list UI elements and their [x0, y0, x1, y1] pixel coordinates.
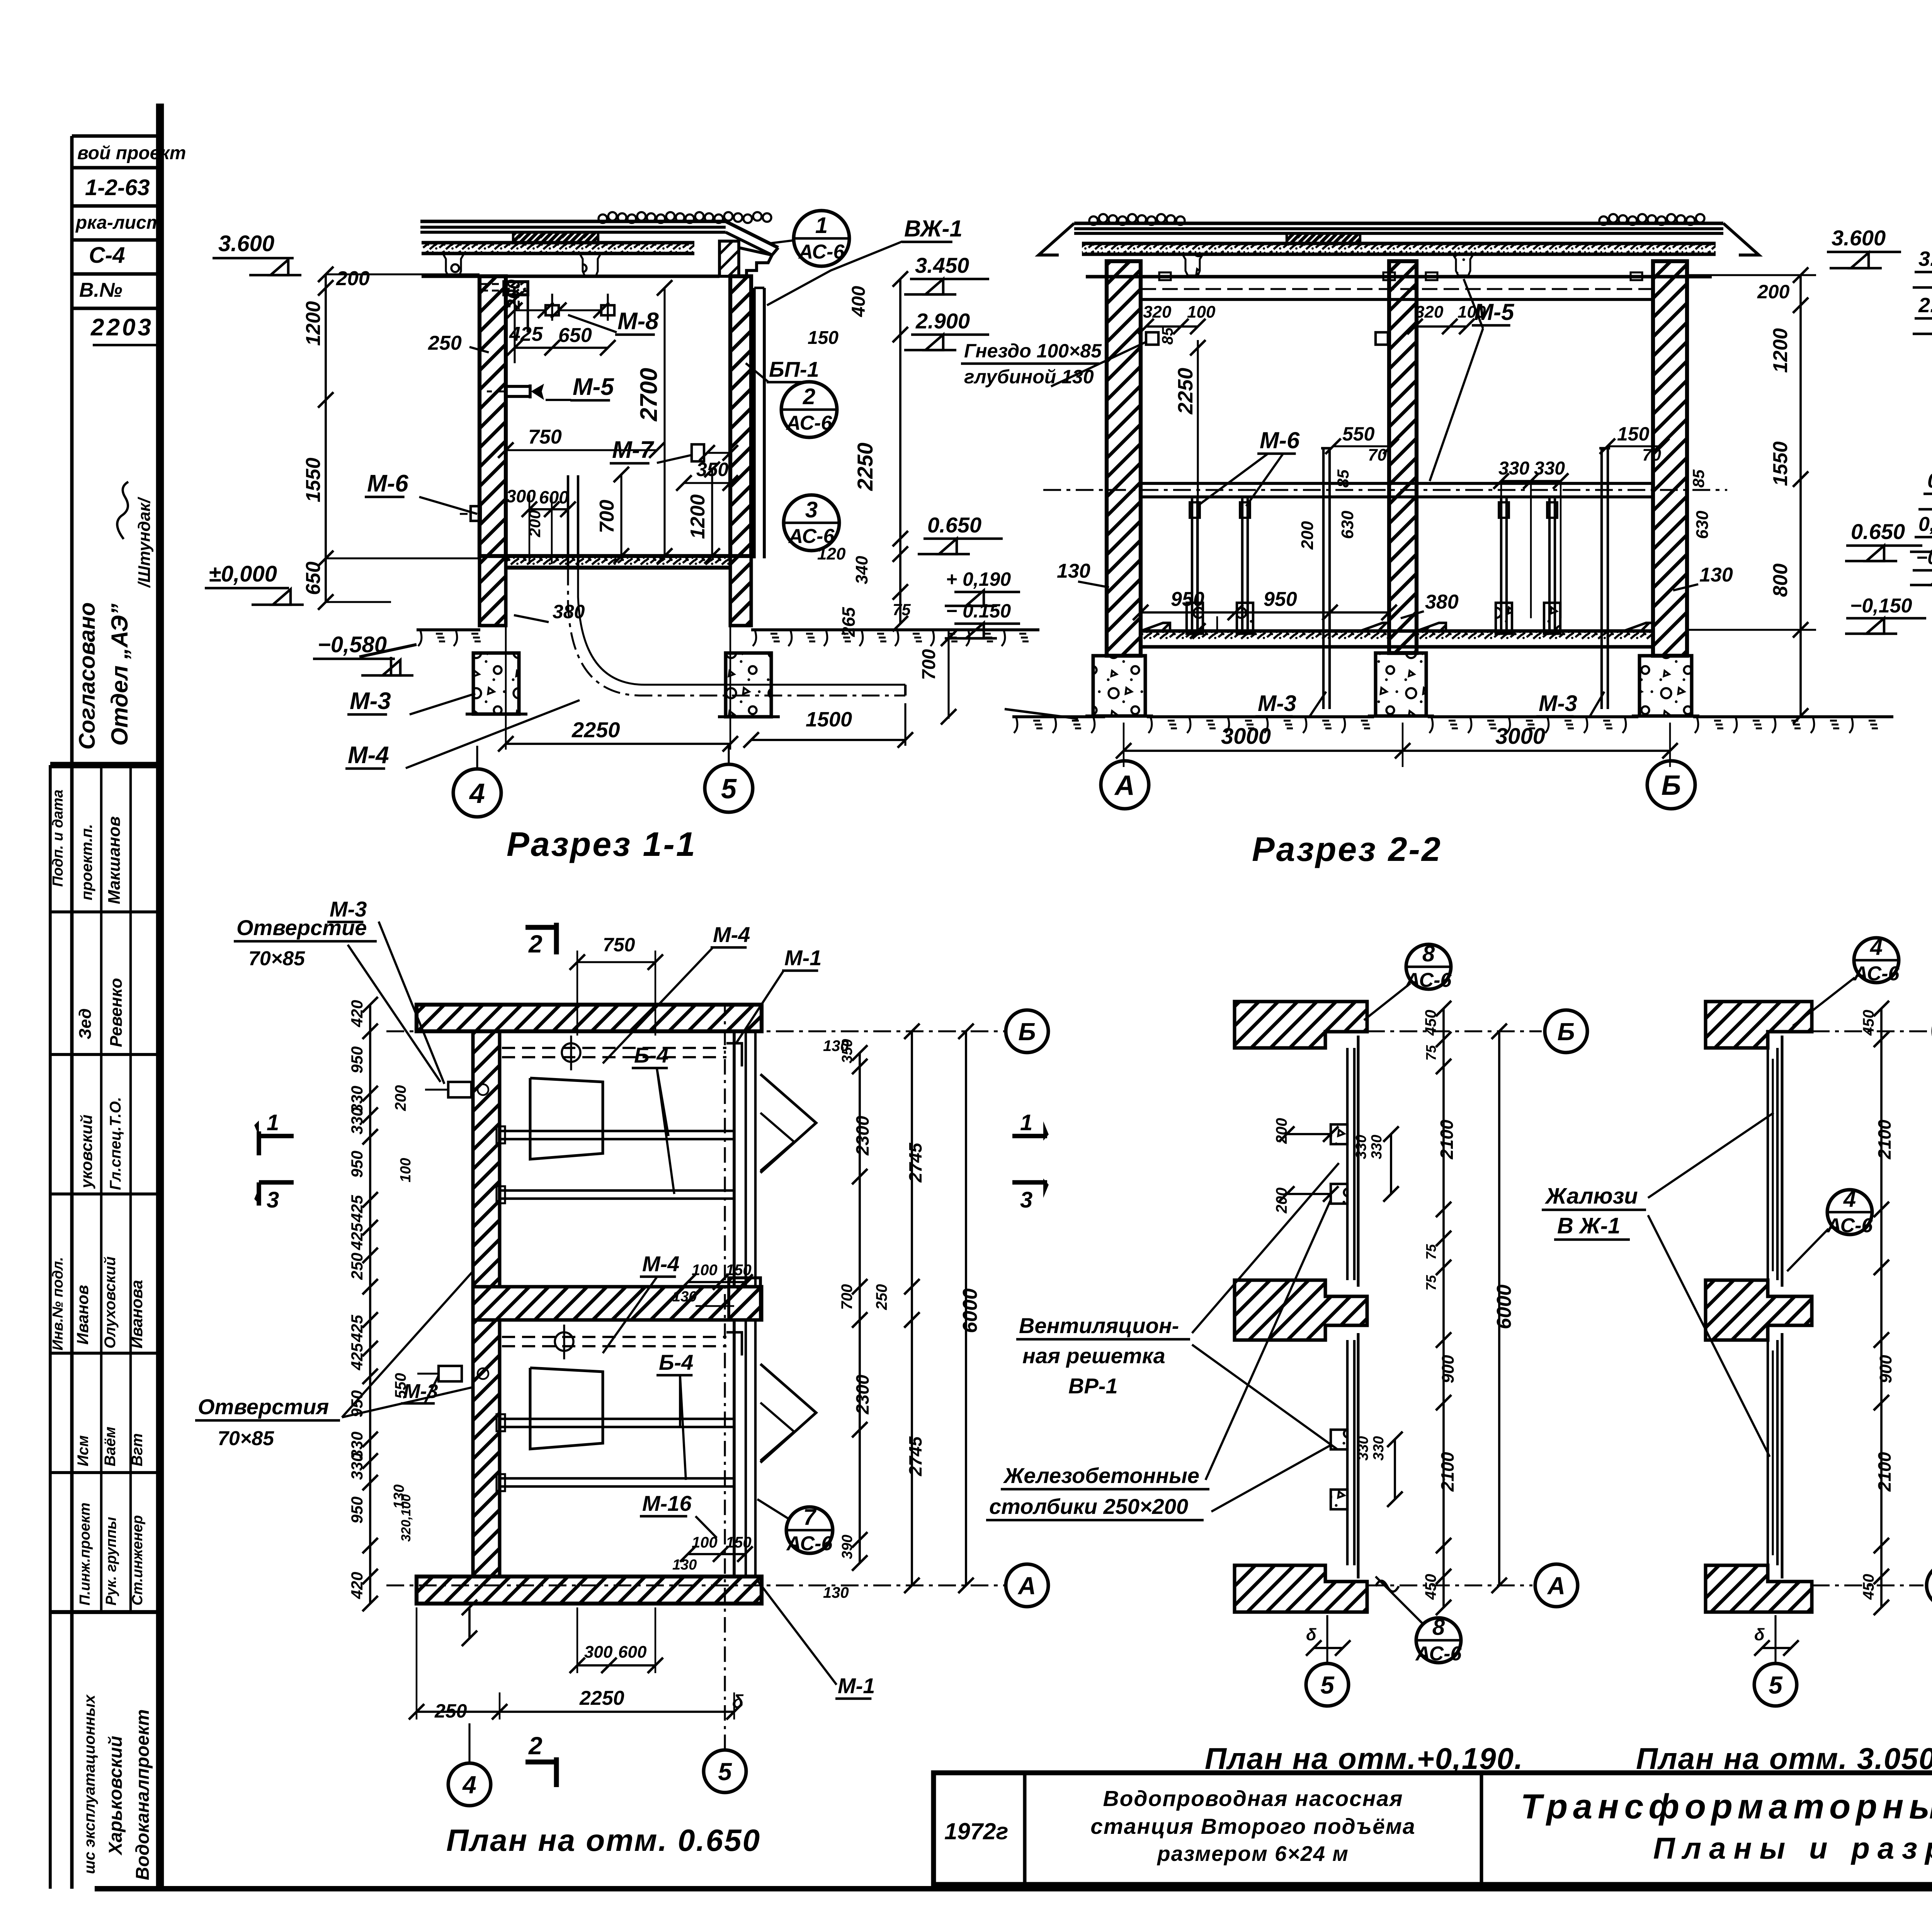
plan 3.050 dim chain right	[1860, 1001, 1895, 1615]
svg-text:А: А	[1114, 770, 1135, 801]
svg-text:425: 425	[348, 1195, 366, 1223]
dim 2250 section 2-2	[1174, 340, 1206, 639]
svg-text:150: 150	[1617, 423, 1650, 445]
svg-text:750: 750	[528, 426, 562, 448]
section 1-1 roof gravel	[599, 212, 771, 223]
svg-text:В.№: В.№	[79, 279, 122, 301]
svg-text:900: 900	[1876, 1355, 1895, 1383]
svg-text:0.650: 0.650	[1851, 519, 1905, 544]
svg-text:800: 800	[1769, 563, 1792, 597]
section 1-1 M-5 shelf bracket	[487, 384, 544, 400]
svg-text:8: 8	[1432, 1615, 1445, 1640]
plan 0.650 labels top	[234, 897, 444, 1084]
svg-text:вой проект: вой проект	[77, 143, 186, 163]
section 1-1 left foundation pad	[466, 653, 527, 714]
plan 0.650 top wall band	[417, 1005, 762, 1031]
section 1-1 floor slab 0.650	[506, 556, 730, 568]
plan 0.190 dim chain right	[1422, 1001, 1458, 1615]
plan 0.650 M-3 anchor lower left	[417, 1366, 488, 1381]
sidebar signature names row1	[78, 816, 124, 904]
section 1-1 M-8 ceiling plates	[507, 294, 614, 321]
section 1-1 ground lines	[359, 630, 1039, 674]
plan 0.650 axis bubble 5 bottom	[704, 1005, 746, 1793]
label M-7 and plate section 1-1	[610, 437, 738, 491]
plan 0.650 label M-4 mid	[603, 1252, 679, 1353]
svg-text:420: 420	[348, 1000, 366, 1027]
svg-text:2100: 2100	[1437, 1119, 1457, 1160]
svg-text:Водопроводная насосная: Водопроводная насосная	[1103, 1786, 1403, 1811]
callout bubble 3/AC-6	[784, 495, 839, 551]
svg-text:− 0.150: − 0.150	[946, 600, 1011, 622]
svg-text:600: 600	[618, 1643, 647, 1662]
svg-text:уковский: уковский	[77, 1114, 95, 1189]
svg-text:Б-4: Б-4	[634, 1043, 668, 1067]
svg-text:М-6: М-6	[367, 470, 408, 497]
svg-text:Исм: Исм	[75, 1435, 92, 1466]
svg-text:130: 130	[672, 1557, 697, 1573]
title block frame	[934, 1773, 1932, 1884]
svg-text:100: 100	[1187, 303, 1216, 321]
svg-text:2: 2	[528, 930, 543, 958]
svg-text:±0,000: ±0,000	[209, 561, 277, 587]
svg-text:2.900: 2.900	[915, 309, 970, 333]
section 2-2 roof gravel left	[1089, 214, 1185, 225]
dim 950 extension lines	[1216, 616, 1218, 634]
plan 0.190 post dims upper	[1273, 1118, 1399, 1214]
svg-text:Б-4: Б-4	[659, 1350, 693, 1374]
plan 3.050 middle pier	[1706, 1280, 1812, 1340]
svg-text:1200: 1200	[687, 494, 709, 539]
svg-text:3: 3	[267, 1187, 279, 1213]
dim 250 section 1-1	[428, 332, 489, 354]
axis bubble 5 section 1-1	[705, 746, 753, 812]
dim 3000 3000 section 2-2	[1116, 723, 1678, 767]
svg-text:Отдел „АЭ”: Отдел „АЭ”	[107, 604, 133, 746]
svg-text:2100: 2100	[1874, 1452, 1895, 1492]
label Gnezdo 100x85	[961, 340, 1147, 388]
svg-text:М-4: М-4	[642, 1252, 679, 1276]
svg-text:2250: 2250	[1174, 368, 1197, 415]
label M-4 section 1-1	[345, 700, 580, 769]
svg-text:М-4: М-4	[348, 742, 389, 769]
svg-text:340: 340	[852, 556, 871, 584]
section 1-1 left dim chain	[302, 267, 480, 610]
svg-text:5: 5	[721, 774, 737, 804]
plan 0.650 section marks 1 3 right	[1012, 1110, 1049, 1213]
plan 0.190 bottom pier	[1235, 1565, 1367, 1612]
svg-text:950: 950	[1264, 588, 1297, 611]
svg-text:75: 75	[893, 600, 911, 619]
svg-text:АС-6: АС-6	[1853, 963, 1900, 985]
svg-text:250: 250	[428, 332, 462, 354]
plan 3.050 axis A	[1812, 1564, 1932, 1607]
svg-text:150: 150	[808, 328, 838, 348]
svg-text:330: 330	[1498, 458, 1529, 479]
svg-text:АС-6: АС-6	[788, 525, 835, 548]
svg-text:Железобетонные: Железобетонные	[1003, 1463, 1199, 1488]
svg-text:425: 425	[348, 1315, 366, 1342]
svg-text:Планы и разрезы: Планы и разрезы	[1653, 1831, 1932, 1865]
svg-text:Разрез 1-1: Разрез 1-1	[507, 825, 697, 863]
plan 3.050 bottom pier	[1706, 1565, 1812, 1612]
svg-text:Вгт: Вгт	[129, 1433, 146, 1466]
plan 0.650 right wall thin lines upper	[734, 1031, 755, 1287]
section 2-2 column A foundation	[1085, 656, 1153, 716]
svg-text:100: 100	[398, 1158, 414, 1182]
plan 0.650 rails upper chamber	[497, 1126, 734, 1203]
level mark -0,580	[313, 632, 413, 675]
svg-text:200: 200	[336, 267, 370, 290]
plan 0.650 axis line B	[386, 1030, 1005, 1032]
svg-text:План на отм. 0.650: План на отм. 0.650	[446, 1823, 761, 1857]
svg-text:−0,580: −0,580	[318, 632, 387, 657]
dim 750 section 1-1	[498, 426, 665, 458]
svg-text:Зед: Зед	[76, 1009, 95, 1039]
label ventilation grille VR-1	[1016, 1163, 1339, 1449]
title block sheet name	[1520, 1787, 1932, 1865]
svg-text:/Штундак/: /Штундак/	[135, 497, 154, 588]
callout bubble 2/AC-6	[781, 382, 837, 437]
plan 0.650 label Otverstiya	[195, 1271, 473, 1450]
dim 1200 section 1-1	[687, 462, 720, 564]
sidebar row6 roles	[77, 1503, 146, 1605]
svg-text:650: 650	[302, 561, 325, 595]
plan 3.050 axis B	[1812, 1010, 1932, 1053]
svg-text:δ: δ	[1754, 1625, 1765, 1644]
svg-text:П.инж.проект: П.инж.проект	[77, 1503, 93, 1605]
svg-text:700: 700	[596, 500, 618, 533]
svg-text:1500: 1500	[806, 708, 852, 731]
plan 0.650 label M-1 bottom	[757, 1580, 875, 1699]
dims left chamber section 2-2	[1133, 423, 1399, 620]
title block year 1972	[944, 1818, 1009, 1844]
plan 0.650 axis bubble 4 bottom	[448, 1723, 491, 1806]
plan 0.650 rails lower chamber	[497, 1414, 734, 1491]
plan 0.650 left dim chain	[348, 997, 378, 1611]
svg-text:0,190: 0,190	[1918, 513, 1932, 536]
plan 0.650 section mark 2 bottom	[526, 1732, 556, 1787]
level 0.650 right of 2-2	[1845, 519, 1922, 561]
section 2-2 roof slab	[1039, 223, 1759, 277]
svg-text:М-3: М-3	[1539, 691, 1577, 716]
svg-text:330: 330	[1369, 1135, 1385, 1159]
section 1-1 BP-1 panel lines	[754, 288, 764, 558]
svg-text:АС-6: АС-6	[1405, 969, 1452, 992]
svg-text:Отверстия: Отверстия	[198, 1395, 329, 1419]
svg-text:100: 100	[692, 1534, 718, 1551]
section 1-1 right dim chain	[808, 271, 911, 637]
svg-text:Иванова: Иванова	[128, 1280, 146, 1349]
section 2-2 floor slab	[1141, 623, 1653, 647]
dim 700 section 1-1	[596, 467, 629, 564]
sidebar left rule	[70, 136, 74, 1889]
plan 0.650 section marks 1 3 left	[254, 1110, 294, 1213]
svg-text:250: 250	[348, 1253, 366, 1280]
plan 0.190 callout 8/AC-6 top	[1364, 941, 1452, 1020]
svg-text:85: 85	[1689, 469, 1708, 488]
plan 0.650 transformer outline upper	[530, 1078, 603, 1159]
svg-text:М-3: М-3	[1258, 691, 1296, 716]
svg-text:Олуховский: Олуховский	[102, 1257, 119, 1349]
svg-text:75: 75	[1423, 1045, 1439, 1061]
svg-text:320: 320	[1415, 303, 1444, 321]
svg-text:0.650: 0.650	[927, 513, 981, 537]
svg-text:Гл.спец.Т.О.: Гл.спец.Т.О.	[107, 1097, 124, 1190]
dims right chamber section 2-2	[1493, 423, 1712, 618]
title block object name	[1090, 1786, 1416, 1866]
svg-text:1200: 1200	[1769, 328, 1792, 373]
svg-text:ВЖ-1: ВЖ-1	[904, 216, 963, 241]
svg-text:3.450: 3.450	[1918, 247, 1932, 270]
svg-text:3000: 3000	[1221, 724, 1271, 749]
sidebar firm cell rotated text	[81, 1694, 153, 1880]
svg-text:Ст.инженер: Ст.инженер	[129, 1515, 146, 1605]
svg-text:С-4: С-4	[89, 243, 125, 268]
svg-text:0,650: 0,650	[1927, 469, 1932, 492]
svg-text:330: 330	[1534, 458, 1565, 479]
plan 0.650 top dim 750	[570, 934, 663, 1036]
svg-text:АС-6: АС-6	[786, 412, 833, 434]
svg-text:550: 550	[1342, 423, 1375, 445]
plan 0.650 transformer outline lower	[530, 1368, 603, 1449]
svg-text:900: 900	[1439, 1355, 1458, 1383]
label M-6 section 1-1	[365, 470, 477, 514]
svg-text:2: 2	[528, 1732, 543, 1760]
sidebar row5 signatures	[75, 1427, 146, 1466]
svg-text:950: 950	[348, 1046, 366, 1073]
svg-text:станция Второго подъёма: станция Второго подъёма	[1090, 1814, 1416, 1839]
svg-text:3.450: 3.450	[915, 253, 969, 277]
dim 380 section 1-1	[514, 601, 585, 622]
callout bubble 1/AC-6	[769, 211, 849, 266]
dim 200 parapet section 1-1	[503, 279, 524, 333]
svg-text:700: 700	[919, 649, 939, 680]
svg-text:Гнездо 100×85: Гнездо 100×85	[964, 340, 1102, 362]
plan 3.050 bottom axis bubble 5	[1754, 1615, 1799, 1706]
section 1-1 M-6 anchor plate	[460, 506, 481, 521]
plan 3.050 top pier	[1706, 1002, 1812, 1048]
dim 2700 section 1-1	[636, 280, 672, 564]
svg-text:−0.750: −0.750	[1916, 547, 1932, 568]
svg-text:150: 150	[726, 1262, 752, 1279]
svg-text:1-2-63: 1-2-63	[85, 175, 150, 200]
plan 0.650 middle band right pier	[729, 1278, 760, 1320]
plan 0.650 label M-16	[640, 1491, 717, 1538]
level mark +-0,000 left	[205, 561, 304, 605]
section 1-1 right levels 0.650 0.190 0.150	[918, 513, 1020, 638]
svg-text:АС-6: АС-6	[1826, 1214, 1873, 1237]
svg-text:М-8: М-8	[617, 308, 659, 335]
label zhalyuzi VZh-1	[1542, 1113, 1774, 1457]
svg-text:М-16: М-16	[642, 1491, 692, 1515]
svg-text:В Ж-1: В Ж-1	[1557, 1213, 1620, 1238]
svg-text:7: 7	[803, 1505, 817, 1530]
svg-text:М-1: М-1	[838, 1673, 875, 1698]
section 1-1 roof slab	[420, 221, 726, 276]
label M-8 section 1-1	[568, 308, 659, 335]
plan 3.050 louvre lower	[1768, 1333, 1782, 1578]
plan 0.650 louvre chevron lower	[760, 1364, 816, 1463]
plan 0.190 concrete posts lower	[1331, 1430, 1347, 1509]
sidebar signature table rules	[50, 765, 160, 1889]
title Razrez 1-1	[507, 825, 697, 863]
plan 0.190 bottom axis bubble 5	[1306, 1615, 1350, 1706]
svg-text:130: 130	[1057, 560, 1090, 582]
title plan 3.050	[1636, 1742, 1932, 1776]
svg-text:400: 400	[849, 286, 869, 317]
section 2-2 column B foundation	[1632, 656, 1699, 716]
plan 0.190 concrete posts upper	[1331, 1124, 1347, 1204]
svg-text:М-6: М-6	[1260, 427, 1300, 453]
plan 0.190 grille upper	[1347, 1036, 1358, 1287]
svg-text:600: 600	[539, 487, 569, 507]
svg-text:Водоканалпроект: Водоканалпроект	[133, 1709, 153, 1880]
svg-text:−0,150: −0,150	[1850, 595, 1912, 617]
plan 0.650 louvre chevron upper	[760, 1074, 816, 1173]
plan 0.190 grille lower	[1347, 1333, 1358, 1578]
section 1-1 roof beam stems	[443, 253, 464, 276]
svg-text:столбики 250×200: столбики 250×200	[989, 1494, 1188, 1519]
svg-text:БП-1: БП-1	[769, 357, 819, 381]
svg-text:150: 150	[726, 1534, 752, 1551]
svg-text:2203: 2203	[90, 314, 153, 341]
section 1-1 cable duct curve	[568, 568, 905, 696]
label M-5 section 2-2	[1430, 279, 1515, 481]
title plan 0.650	[446, 1823, 761, 1857]
svg-text:450: 450	[1860, 1574, 1877, 1600]
svg-text:2300: 2300	[852, 1374, 872, 1415]
label BP-1	[746, 357, 819, 382]
svg-text:А: А	[1547, 1572, 1565, 1600]
dim 2250 section 1-1 bottom	[498, 572, 738, 752]
svg-text:6000: 6000	[1493, 1284, 1515, 1329]
plan 0.650 left wall upper chamber	[473, 1031, 500, 1287]
labels 130 section 2-2	[1057, 560, 1733, 590]
plan 0.650 label M-1 top	[736, 946, 821, 1043]
svg-text:4: 4	[462, 1771, 476, 1799]
svg-text:3000: 3000	[1495, 724, 1545, 749]
svg-text:200: 200	[1757, 281, 1790, 303]
plan 0.190 dim 6000	[1492, 1024, 1515, 1593]
section 2-2 top ring beam	[1141, 272, 1653, 299]
plan 3.050 callout 4/AC-6 mid	[1787, 1187, 1873, 1271]
svg-text:200: 200	[1298, 521, 1317, 550]
svg-text:630: 630	[1338, 510, 1357, 539]
dims 300 600 200 section 1-1	[506, 486, 576, 564]
sidebar row4 names	[73, 1257, 146, 1349]
plan 0.650 label B-4 upper	[632, 1043, 674, 1194]
section 2-2 ground line	[1005, 709, 1893, 733]
svg-text:6000: 6000	[959, 1288, 981, 1333]
svg-text:Б: Б	[1557, 1018, 1575, 1046]
svg-text:1550: 1550	[302, 457, 325, 502]
svg-text:1200: 1200	[302, 301, 325, 346]
svg-text:ВР-1: ВР-1	[1068, 1374, 1118, 1398]
plan 0.650 label M-4 top	[603, 922, 750, 1063]
plan 0.650 cable trench lower	[502, 1325, 742, 1359]
plan 3.050 callout 4/AC-6 top	[1793, 935, 1900, 1026]
svg-text:425: 425	[348, 1343, 366, 1371]
svg-text:М-1: М-1	[784, 946, 821, 970]
sheet bottom border line	[95, 1886, 1932, 1891]
plan 0.650 inner left dims	[391, 1085, 414, 1542]
svg-text:450: 450	[1422, 1574, 1439, 1600]
axis bubble B section 2-2	[1647, 761, 1695, 809]
plan 0.650 left wall lower chamber	[473, 1320, 500, 1577]
title Razrez 2-2	[1252, 830, 1442, 868]
section 2-2 roof gravel right	[1599, 214, 1704, 225]
section 2-2 M-6 hanger rods right chamber	[1496, 498, 1560, 634]
section 1-1 right levels 3.450 2.900	[904, 253, 989, 350]
svg-text:650: 650	[558, 324, 592, 347]
svg-text:размером 6×24 м: размером 6×24 м	[1156, 1842, 1349, 1866]
plan 0.650 axis bubble A	[1006, 1564, 1048, 1607]
svg-text:Рук. группы: Рук. группы	[103, 1517, 119, 1605]
svg-text:ная решетка: ная решетка	[1022, 1344, 1165, 1368]
section 1-1 wall top dashes	[481, 284, 504, 291]
sidebar signatures row2	[76, 978, 126, 1047]
plan 0.190 top pier	[1235, 1002, 1367, 1048]
sidebar outer margin rotated text	[50, 789, 66, 1350]
svg-text:2250: 2250	[579, 1687, 624, 1709]
section 1-1 left wall	[480, 276, 528, 556]
svg-text:300: 300	[584, 1643, 613, 1662]
svg-text:4: 4	[1843, 1187, 1856, 1212]
svg-text:Жалюзи: Жалюзи	[1544, 1184, 1638, 1209]
svg-text:265: 265	[838, 607, 859, 637]
plan 3.050 louvre upper	[1768, 1036, 1782, 1287]
section 2-2 column A	[1107, 261, 1141, 656]
svg-text:Ваём: Ваём	[102, 1427, 119, 1466]
svg-text:рка-лист: рка-лист	[75, 213, 163, 233]
svg-text:330: 330	[348, 1107, 366, 1134]
svg-text:АС-6: АС-6	[1415, 1643, 1462, 1665]
label VZh-1	[767, 216, 963, 305]
svg-text:Инв.№ подл.: Инв.№ подл.	[50, 1257, 66, 1350]
dim 425 650 section 1-1	[507, 323, 616, 363]
dim 1500 section 1-1	[743, 630, 956, 748]
svg-text:130: 130	[1699, 564, 1733, 586]
svg-text:8: 8	[1422, 941, 1435, 966]
title plan 0.190	[1205, 1742, 1524, 1776]
svg-text:2100: 2100	[1437, 1452, 1458, 1492]
svg-text:1: 1	[1020, 1110, 1032, 1135]
label M-5 section 1-1	[546, 374, 614, 400]
svg-text:5: 5	[1769, 1671, 1783, 1699]
svg-text:950: 950	[348, 1497, 366, 1524]
svg-text:330: 330	[1353, 1135, 1369, 1159]
svg-text:2: 2	[803, 384, 815, 409]
section 1-1 right wall with cornice	[730, 276, 751, 556]
section 2-2 right dim chain	[1687, 267, 1816, 724]
section 2-2 gnezdo plates top	[1138, 303, 1486, 345]
plan 0.650 axis line A	[386, 1584, 1005, 1586]
svg-text:330: 330	[348, 1453, 366, 1480]
axis bubble 4 section 1-1	[453, 746, 501, 817]
svg-text:950: 950	[348, 1151, 366, 1178]
svg-text:2300: 2300	[852, 1116, 872, 1156]
svg-text:4: 4	[469, 778, 485, 809]
section 1-1 right foundation pad	[718, 653, 780, 717]
level mark 3.600 left	[213, 231, 301, 275]
svg-text:630: 630	[1693, 510, 1712, 539]
svg-text:85: 85	[1334, 469, 1352, 488]
svg-text:390: 390	[839, 1535, 855, 1559]
svg-text:М-3: М-3	[403, 1380, 438, 1403]
svg-text:Ревенко: Ревенко	[107, 978, 126, 1047]
svg-text:950: 950	[1171, 588, 1204, 611]
svg-text:2700: 2700	[636, 368, 662, 422]
